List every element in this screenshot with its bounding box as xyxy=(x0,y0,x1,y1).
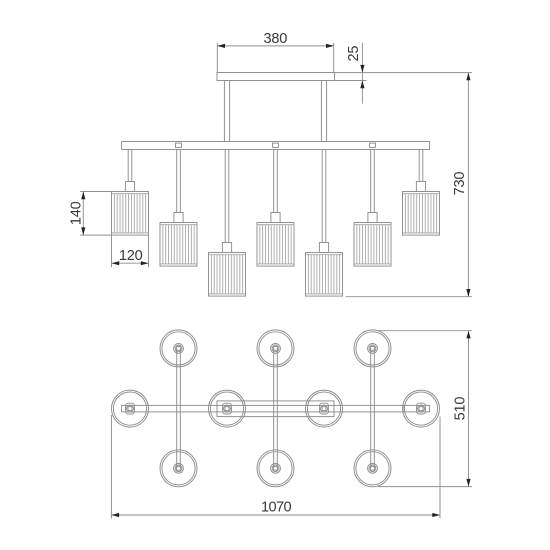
lamp 7 (high) rod+socket+shade xyxy=(403,150,440,236)
svg-text:380: 380 xyxy=(263,31,287,47)
dimension 140 xyxy=(69,192,112,236)
lamp 4 (mid) rod+socket+shade xyxy=(257,150,294,267)
on-bar lamp circle 1 xyxy=(112,390,149,427)
svg-text:510: 510 xyxy=(453,397,469,421)
dimension 25 xyxy=(335,43,473,104)
svg-text:730: 730 xyxy=(452,172,468,196)
dimension 730 xyxy=(346,73,473,297)
main bar (top view) xyxy=(122,405,430,412)
bar joint at on-bar lamp 4 xyxy=(403,405,405,412)
lamp 1 (high) rod+socket+shade xyxy=(112,150,149,236)
top row lamp circle 1 xyxy=(160,330,197,367)
main horizontal bar (front view) xyxy=(122,142,430,150)
bottom row lamp circle 2 xyxy=(257,450,294,487)
dimension 510 xyxy=(377,331,472,487)
svg-text:1070: 1070 xyxy=(261,499,292,515)
on-bar lamp circle 2 xyxy=(209,390,246,427)
svg-text:25: 25 xyxy=(346,46,362,62)
lamp 5 (low) rod+socket+shade xyxy=(306,150,343,297)
cross arm column 2 xyxy=(274,349,278,468)
canopy stem right xyxy=(321,81,326,142)
lamp 6 (mid) rod+socket+shade xyxy=(354,150,391,267)
cross arm column 3 xyxy=(371,349,375,468)
dimension 380 xyxy=(217,31,333,72)
bottom row lamp circle 1 xyxy=(160,450,197,487)
cross-arm connector on bar at lamp 4 xyxy=(273,143,279,147)
on-bar lamp circle 4 xyxy=(403,390,440,427)
svg-text:120: 120 xyxy=(119,248,143,264)
on-bar lamp circle 3 xyxy=(306,390,343,427)
cross-arm connector on bar at lamp 6 xyxy=(370,143,376,147)
canopy stem left xyxy=(224,81,229,142)
canopy plate (top view) xyxy=(217,401,334,417)
top row lamp circle 2 xyxy=(257,330,294,367)
dimension 120 xyxy=(112,236,149,268)
cross-arm connector on bar at lamp 2 xyxy=(176,143,182,147)
canopy plate xyxy=(217,73,335,81)
dimension 1070 xyxy=(111,415,440,519)
lamp 3 (low) rod+socket+shade xyxy=(209,150,246,297)
cross arm column 1 xyxy=(177,349,181,468)
svg-text:140: 140 xyxy=(69,201,85,225)
lamp 2 (mid) rod+socket+shade xyxy=(160,150,197,267)
top row lamp circle 3 xyxy=(354,330,391,367)
bottom row lamp circle 3 xyxy=(354,450,391,487)
